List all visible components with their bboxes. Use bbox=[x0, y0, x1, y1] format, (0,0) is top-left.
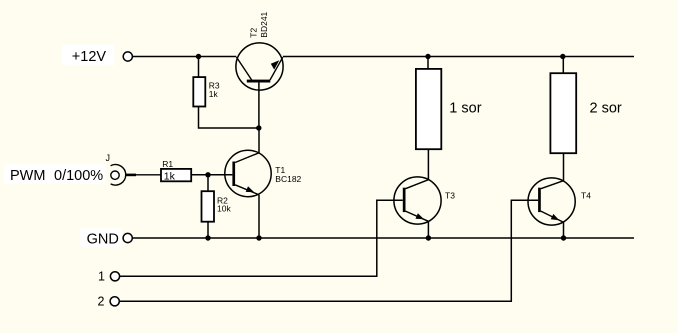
junction R2 top bbox=[205, 172, 210, 177]
svg-text:GND: GND bbox=[87, 231, 119, 247]
node PWM label bbox=[4, 164, 106, 184]
svg-text:1k: 1k bbox=[209, 89, 219, 99]
junction T1 emitter bbox=[256, 235, 261, 240]
svg-text:0/100%: 0/100% bbox=[54, 168, 103, 184]
svg-text:10k: 10k bbox=[217, 203, 231, 213]
svg-text:R1: R1 bbox=[162, 159, 173, 169]
junction T2 base node bbox=[256, 125, 261, 130]
transistor T1 bbox=[225, 150, 271, 196]
terminal GND bbox=[123, 233, 132, 242]
wire 1 sor top lead bbox=[427, 57, 429, 69]
label T2 BD241 (rotated) bbox=[249, 11, 269, 37]
resistor R3 bbox=[193, 77, 220, 106]
svg-text:2: 2 bbox=[98, 295, 105, 309]
svg-text:BC182: BC182 bbox=[275, 174, 301, 184]
terminal input 1 bbox=[110, 272, 119, 281]
load 1 sor bbox=[416, 69, 482, 149]
wire T4 emitter to GND bbox=[563, 222, 565, 238]
transistor T3 bbox=[394, 177, 441, 224]
transistor T2 bbox=[236, 43, 283, 128]
svg-text:PWM: PWM bbox=[10, 168, 45, 184]
resistor R2 bbox=[202, 191, 232, 222]
svg-text:T4: T4 bbox=[581, 190, 591, 200]
svg-text:1: 1 bbox=[98, 270, 105, 284]
transistor T4 bbox=[528, 178, 575, 225]
wire R2 bottom lead bbox=[207, 222, 209, 238]
svg-text:+12V: +12V bbox=[72, 49, 107, 65]
node GND label bbox=[80, 228, 122, 247]
wire T3 emitter to GND bbox=[427, 221, 429, 238]
junction T3 emitter bbox=[426, 235, 431, 240]
svg-text:1k: 1k bbox=[164, 170, 176, 182]
wire +12V rail left segment bbox=[132, 56, 236, 58]
label T1 BC182 bbox=[275, 165, 301, 184]
wire J to R1 bbox=[136, 174, 161, 176]
terminal input 2 bbox=[110, 297, 119, 306]
svg-text:T3: T3 bbox=[445, 190, 455, 200]
junction T4 emitter bbox=[561, 235, 566, 240]
wire 2 sor top lead bbox=[562, 57, 564, 74]
wire T4 base from input 2 bbox=[119, 200, 538, 301]
resistor R1 bbox=[161, 159, 191, 182]
svg-text:BD241: BD241 bbox=[259, 11, 269, 37]
wire T1 emitter to GND bbox=[258, 195, 260, 238]
junction R3 top bbox=[196, 54, 201, 59]
wire +12V rail right segment bbox=[283, 56, 634, 58]
junction 2 sor top bbox=[560, 54, 565, 59]
wire 2 sor to T4 collector bbox=[563, 153, 565, 181]
wire T1 collector to base node bbox=[258, 128, 260, 153]
wire R2 top lead bbox=[207, 175, 209, 191]
wire 1 sor to T3 collector bbox=[427, 149, 429, 180]
node +12V label bbox=[62, 44, 114, 65]
svg-text:T2: T2 bbox=[249, 28, 259, 38]
wire R1 to T1 base bbox=[191, 174, 232, 176]
wire GND rail bbox=[132, 237, 634, 239]
wire R3 bottom lead bbox=[199, 107, 259, 129]
wire R3 top lead bbox=[198, 57, 200, 78]
junction R2 bottom bbox=[205, 235, 210, 240]
terminal +12V bbox=[123, 52, 132, 61]
connector J bbox=[111, 165, 136, 186]
svg-text:2 sor: 2 sor bbox=[590, 100, 622, 116]
wire T3 base from input 1 bbox=[120, 200, 403, 276]
load 2 sor bbox=[550, 73, 622, 153]
svg-text:1 sor: 1 sor bbox=[449, 100, 481, 116]
junction 1 sor top bbox=[425, 54, 430, 59]
svg-text:J: J bbox=[106, 153, 111, 163]
